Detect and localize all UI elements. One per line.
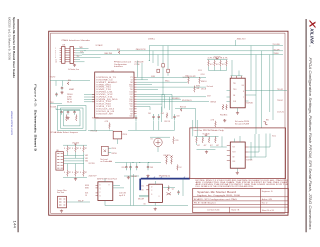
bus SPI horizontal — [141, 178, 190, 180]
svg-text:VCCJ: VCCJ — [272, 136, 276, 138]
wire frame right horiz — [249, 146, 270, 148]
wire y137 center — [150, 136, 170, 138]
svg-text:Rev: D: Rev: D — [262, 203, 268, 205]
bus entry ticks — [146, 177, 185, 179]
svg-text:MOSI: MOSI — [196, 86, 200, 88]
frame resistor R82 — [196, 137, 198, 143]
Xilinx logo X mark — [307, 19, 317, 28]
JP1 internal pins — [59, 199, 65, 205]
svg-text:SPI-MISO: SPI-MISO — [172, 98, 180, 100]
wire y96.8 — [137, 96, 206, 98]
svg-text:R30: R30 — [68, 80, 71, 82]
U5 bottom pin wire — [104, 201, 106, 206]
wire vert x195 to PROM frame — [194, 108, 196, 127]
decoupling cap C52 — [61, 110, 63, 112]
no-load part right pins — [108, 147, 111, 149]
resistor grid row1 R64 — [83, 146, 85, 153]
svg-text:XCF04S: XCF04S — [246, 160, 253, 162]
U7 top pins — [234, 139, 236, 143]
svg-text:XILINX: XILINX — [310, 27, 315, 45]
resistor R60 in loop — [66, 115, 68, 122]
VCC above resistor grid — [74, 144, 77, 145]
jumper loop wires inner — [64, 111, 81, 126]
wire vertical drop x149 to config block — [148, 46, 150, 61]
wire J28 pin 5 net — [75, 56, 100, 58]
svg-text:J30: J30 — [56, 150, 59, 152]
wires in frame left — [210, 146, 227, 148]
svg-text:JTAG-TMS: JTAG-TMS — [104, 52, 113, 55]
svg-text:7: 7 — [243, 97, 244, 99]
svg-text:4K7: 4K7 — [216, 64, 219, 66]
frame title Load for PROM Mode Only — [192, 128, 224, 131]
ground under U7 — [236, 171, 239, 174]
wire bus right of U2 y77.4 — [137, 76, 206, 78]
wire J30 row VS2 — [64, 155, 85, 157]
frame resistor R83 — [202, 137, 204, 143]
svg-text:R35: R35 — [117, 49, 120, 51]
capacitor C62 — [158, 114, 160, 116]
svg-text:R: R — [80, 148, 81, 150]
svg-text:CE: CE — [233, 95, 235, 97]
wire y101.7 — [137, 101, 209, 103]
svg-text:4.7K: 4.7K — [211, 119, 215, 121]
svg-text:13: 13 — [55, 62, 57, 64]
svg-text:FT256: FT256 — [135, 64, 140, 66]
wire vertical drop x153 — [152, 51, 154, 63]
cap drop wires — [125, 163, 127, 165]
wire y94.4 — [137, 93, 172, 95]
svg-text:VCCJ: VCCJ — [198, 70, 202, 72]
svg-text:VCC3V3: VCC3V3 — [89, 163, 95, 165]
pull resistor R50 mid — [180, 108, 182, 111]
svg-text:TDO-USB: TDO-USB — [273, 44, 281, 46]
svg-text:DIN-SPI: DIN-SPI — [131, 176, 138, 178]
svg-text:4K7: 4K7 — [222, 64, 225, 66]
wire vert x95 — [94, 119, 96, 131]
svg-text:R81: R81 — [266, 120, 269, 122]
U7 left pins — [227, 146, 231, 161]
oscillator internal mark — [156, 140, 161, 145]
op-amp U2 FPGA configuration block body — [95, 72, 134, 118]
svg-text:VS1: VS1 — [85, 158, 88, 160]
U5 left pin stubs — [96, 185, 98, 195]
schematic border frame outer — [49, 31, 288, 215]
svg-text:VS2: VS2 — [85, 155, 88, 157]
svg-text:JTAG-TDO: JTAG-TDO — [237, 37, 247, 40]
svg-text:C63: C63 — [177, 115, 180, 117]
junction dots on rail — [132, 162, 133, 163]
capacitor C63 — [174, 114, 176, 116]
svg-text:SPI-BUS[0..3]: SPI-BUS[0..3] — [159, 176, 171, 178]
wire vert x161.5 — [161, 107, 163, 123]
title block row sheet title line — [193, 196, 261, 198]
U2 left pin stubs — [92, 95, 95, 102]
resistor grid row2 R67 — [83, 170, 85, 177]
svg-text:TDI-XC: TDI-XC — [277, 100, 284, 102]
svg-text:TMS-B: TMS-B — [274, 53, 280, 55]
svg-text:4K7: 4K7 — [204, 145, 207, 147]
svg-text:TDI-SPI: TDI-SPI — [274, 49, 280, 51]
capacitor C70 bottom — [178, 190, 180, 192]
resistor grid row2 R65 — [67, 170, 69, 177]
svg-text:144: 144 — [12, 221, 16, 229]
svg-text:V: V — [159, 196, 160, 198]
svg-text:XCF04S: XCF04S — [246, 103, 253, 105]
title block outer — [193, 188, 289, 212]
oscillator X1 body circle — [154, 138, 162, 146]
resistor R70 vertical — [173, 137, 175, 144]
wire mesh verticals — [161, 94, 163, 112]
svg-text:JTAG Interface Header: JTAG Interface Header — [61, 39, 90, 42]
wire vertical drop x261 — [261, 51, 263, 128]
capacitor C67 — [136, 165, 138, 167]
svg-text:TDO-XC: TDO-XC — [277, 89, 284, 91]
svg-text:8: 8 — [243, 91, 244, 93]
wire vertical drop x251 to PROM — [250, 46, 252, 91]
svg-text:Q1: Q1 — [172, 189, 174, 191]
U4 left pins — [227, 89, 231, 91]
svg-text:TCK-FX2: TCK-FX2 — [50, 76, 56, 78]
wire y79.8 — [137, 79, 148, 81]
no-load X marks RN1 — [165, 155, 167, 157]
svg-text:Size: B: Size: B — [231, 210, 240, 212]
frame Load for PROM only — [190, 128, 286, 179]
svg-text:DONE-C: DONE-C — [148, 38, 156, 40]
svg-text:4K7: 4K7 — [197, 145, 200, 147]
svg-text:FPGA Configuration Settings, P: FPGA Configuration Settings, Platform Fl… — [308, 58, 312, 230]
U7 bottom pin — [236, 168, 238, 171]
resistor R46 mid — [194, 86, 196, 93]
wire from JP1 — [67, 201, 91, 203]
svg-text:Spartan-3E Starter Board: Spartan-3E Starter Board — [197, 190, 236, 194]
wires in frame right verticals — [250, 142, 252, 160]
IC U4 XCF04S Platform Flash body — [230, 78, 245, 108]
component R81 topright — [264, 122, 268, 125]
svg-text:R45: R45 — [186, 75, 189, 77]
svg-text:CCLK-SPI: CCLK-SPI — [188, 76, 196, 78]
svg-text:D0: D0 — [242, 85, 244, 87]
wire rail above resistor grid — [63, 144, 87, 146]
svg-text:C65: C65 — [122, 167, 125, 169]
capacitor C61 — [153, 114, 155, 116]
svg-text:MISO-S: MISO-S — [201, 81, 207, 83]
wire right of U4 y90.5 — [251, 90, 287, 92]
decoupling cap C54 — [74, 110, 76, 112]
header rule (right side) — [305, 19, 307, 232]
svg-text:Engineer: JL: Engineer: JL — [262, 191, 273, 193]
vertical resistors R54 R55 right — [222, 104, 224, 110]
transistor Q1 cluster right of U6 — [168, 186, 170, 191]
wire osc down — [157, 147, 159, 153]
svg-text:Figure A-5: Schematic Sheet 5: Figure A-5: Schematic Sheet 5 — [34, 84, 38, 151]
svg-text:CCLK-XC: CCLK-XC — [277, 111, 285, 113]
wire left edge y103 — [50, 103, 62, 105]
capacitor C51 — [56, 92, 58, 94]
svg-text:X1: X1 — [151, 139, 153, 141]
vertical joins resistor grid — [67, 152, 69, 155]
svg-text:4K7: 4K7 — [85, 148, 88, 150]
resistor grid row2 R66 — [75, 170, 77, 177]
svg-text:M1: M1 — [109, 161, 111, 163]
ground below J28 — [73, 64, 76, 67]
U4 right pins — [245, 90, 251, 92]
svg-text:JTAG-FX2-TDI: JTAG-FX2-TDI — [136, 48, 146, 51]
wire from SW0 down — [116, 139, 118, 144]
wire y84.7 — [137, 84, 152, 86]
ground under grid — [63, 177, 87, 179]
wire rail above caps — [56, 109, 80, 111]
svg-text:R: R — [72, 172, 73, 174]
power rail wire y162.5 — [115, 162, 161, 164]
wire vertical drop x168 — [167, 46, 169, 69]
VCC arrow above bank — [216, 58, 219, 59]
pull-up resistor bank R40-R43 above PROM — [207, 59, 228, 61]
wire J30 row VS0 — [64, 160, 85, 162]
wire TDO from J28 — [75, 52, 84, 54]
svg-text:R71 R72: R71 R72 — [164, 155, 171, 157]
capacitor C68 — [147, 165, 149, 167]
wire y89.5 — [137, 89, 158, 91]
frame resistor R85 — [215, 137, 217, 143]
junction dots mid — [162, 94, 163, 95]
svg-text:SPI-ROM-CS: SPI-ROM-CS — [182, 100, 192, 102]
series resistor R left — [67, 82, 69, 85]
wire U6 right — [163, 187, 175, 189]
svg-text:DOUT: DOUT — [207, 95, 211, 97]
wire drops to rail — [135, 121, 137, 130]
bus SPI vertical left — [139, 179, 141, 191]
diode D3 on x163 — [162, 64, 165, 67]
ground under C50 — [60, 91, 63, 94]
svg-text:2x6 3.3V: 2x6 3.3V — [119, 192, 127, 194]
ground under JP1 — [60, 210, 63, 213]
diode D5 on x158 — [157, 69, 160, 72]
U4 top pin stubs red — [232, 76, 242, 78]
Xilinx logo wordmark — [310, 27, 315, 45]
wire vertical JTAG-TDO drop — [234, 40, 236, 46]
svg-text:VCC3V3: VCC3V3 — [214, 57, 221, 59]
svg-text:250K R77: 250K R77 — [89, 176, 97, 178]
svg-text:4K7: 4K7 — [210, 64, 213, 66]
wire verticals to bottom rail — [129, 166, 131, 206]
ground under R54 — [223, 119, 226, 122]
title block row date line — [193, 203, 261, 205]
svg-text:CS: CS — [85, 195, 87, 197]
ground under caps — [66, 116, 69, 119]
U6 top pin — [155, 181, 157, 184]
U2 right pin stubs — [134, 77, 137, 113]
no-load resistor pair RN1 — [166, 158, 168, 164]
resistor R45 mid — [188, 77, 190, 84]
J30 internal pins — [57, 154, 63, 169]
svg-text:S: S — [151, 194, 152, 196]
svg-text:4K7: 4K7 — [77, 148, 80, 150]
vertical resistor R52 — [166, 113, 168, 119]
ground bottom center — [154, 208, 157, 211]
connector J28 pin stubs — [60, 48, 76, 62]
svg-text:Digilent, Inc. Copyright 2005: Digilent, Inc. Copyright 2005, 2006 — [197, 194, 240, 197]
frame resistor R84 — [208, 137, 210, 143]
U4 top pin rail — [231, 75, 243, 77]
svg-text:VS0-JP: VS0-JP — [78, 200, 84, 202]
svg-text:VCC3V3: VCC3V3 — [50, 107, 56, 109]
connector JP1 body — [58, 196, 67, 208]
wire x142 drop — [141, 63, 143, 80]
title block row file line — [193, 200, 261, 202]
wire trunk TDO-USB — [149, 45, 283, 47]
wire y108.3 — [175, 107, 195, 109]
U6 bottom pin — [154, 202, 156, 205]
svg-text:MOSI: MOSI — [85, 185, 90, 187]
svg-text:C62: C62 — [161, 113, 164, 115]
svg-text:C68: C68 — [150, 167, 153, 169]
wire vertical drop x163 — [162, 46, 164, 64]
footer rule (rotated page footer line) — [17, 19, 19, 232]
wire horiz bottom y205.5 — [105, 205, 188, 207]
svg-text:See Text: See Text — [57, 191, 65, 194]
IC U5 SPI flash body — [98, 182, 113, 201]
resistor R47 mid — [199, 77, 201, 84]
svg-text:VCCAUX: VCCAUX — [202, 133, 210, 136]
svg-text:VCCAUX: VCCAUX — [96, 44, 104, 47]
wire vertical drop x158 — [157, 55, 159, 66]
svg-text:11: 11 — [55, 59, 57, 61]
wire trunk TDI row — [84, 50, 283, 52]
svg-text:V: V — [109, 185, 110, 187]
svg-text:N9: N9 — [130, 113, 132, 115]
no-load X mark — [104, 150, 106, 152]
wire J30 row VS1 — [64, 157, 85, 159]
wire J30 row M2 — [64, 163, 85, 165]
svg-text:PROG: PROG — [112, 148, 117, 150]
svg-text:VCC3V3: VCC3V3 — [72, 142, 79, 144]
VCC in frame — [205, 135, 208, 136]
frame resistor bank R82-R85 rail — [195, 135, 219, 137]
wire vert x56 — [55, 81, 57, 86]
wire horiz y80.6 — [50, 80, 90, 82]
svg-text:4K7: 4K7 — [77, 172, 80, 174]
svg-text:4K7: 4K7 — [85, 172, 88, 174]
svg-text:R46: R46 — [197, 88, 200, 90]
svg-text:C60: C60 — [130, 116, 133, 118]
resistor R61 in loop — [76, 115, 78, 122]
wire y99.2 — [137, 98, 181, 100]
svg-text:HSWAP: HSWAP — [69, 88, 75, 91]
wire vert x62.7 — [62, 81, 64, 86]
svg-text:4K7: 4K7 — [69, 148, 72, 150]
svg-text:R: R — [72, 148, 73, 150]
svg-text:VS2-L: VS2-L — [165, 81, 170, 83]
svg-text:R: R — [80, 172, 81, 174]
svg-text:Interface: Interface — [114, 65, 123, 68]
resistor grid row1 R62 — [67, 146, 69, 153]
svg-text:R: R — [64, 172, 65, 174]
svg-text:M0-J30: M0-J30 — [67, 101, 72, 103]
svg-text:D2: D2 — [180, 167, 182, 169]
U7 right pins — [245, 147, 248, 157]
svg-text:No Load on FLASH: No Load on FLASH — [235, 123, 250, 126]
svg-text:R: R — [64, 148, 65, 150]
ground under C65-C68 — [124, 175, 139, 177]
svg-text:CE: CE — [232, 157, 234, 159]
U5 top pin — [104, 179, 106, 182]
svg-text:FPGA Mode Select Jumpers: FPGA Mode Select Jumpers — [50, 131, 78, 134]
wire J28 pin 6 net — [75, 59, 80, 61]
svg-text:R52 1K: R52 1K — [165, 121, 171, 123]
no-load part body — [102, 146, 109, 155]
svg-text:DONE: DONE — [151, 76, 155, 78]
wire y104.1 — [137, 103, 162, 105]
jumper loop wires outer — [58, 106, 87, 131]
component D2 above bus — [177, 165, 179, 171]
wire J28 pin 7 net — [75, 61, 84, 63]
wire vert x183 bottom — [182, 179, 184, 196]
svg-text:UG230 (v1.0) March 9, 2006: UG230 (v1.0) March 9, 2006 — [8, 17, 12, 60]
schematic border frame inner — [51, 33, 285, 213]
U4 top feed wires — [231, 60, 233, 76]
wire vert x273 right edge — [272, 46, 274, 120]
connector J30 mode jumper body — [56, 152, 64, 170]
wires from bank down — [208, 67, 210, 71]
wire teal outside frame left — [192, 120, 194, 136]
connector J28 JTAG header body — [62, 47, 66, 64]
capacitor C66 — [130, 165, 132, 167]
wire y82.2 — [137, 81, 188, 83]
svg-text:2x7 Header, 2mm: 2x7 Header, 2mm — [68, 69, 79, 71]
wire x137 drop — [137, 61, 139, 78]
resistor R68 vertical — [109, 123, 111, 129]
svg-text:CLK: CLK — [232, 161, 235, 163]
decoupling cap C53 — [67, 110, 69, 112]
wire y87.1 — [137, 86, 206, 88]
svg-text:S: S — [100, 196, 101, 198]
wire trunk TMS row — [82, 54, 283, 56]
pushbutton SW0 PROG body — [113, 131, 122, 139]
component R80 above frame — [215, 121, 217, 127]
wire vertical drop x269 — [269, 55, 271, 112]
svg-text:PROG: PROG — [123, 134, 128, 136]
IC U7 XCF04S in frame body — [230, 142, 245, 168]
capacitor C50 — [61, 86, 63, 88]
U5 right wires — [113, 184, 120, 186]
wire TMS from J28 — [75, 47, 88, 49]
title block size cell — [229, 207, 231, 213]
svg-text:SEL-SPI: SEL-SPI — [138, 198, 145, 200]
svg-text:IO/DOUT_N9: IO/DOUT_N9 — [97, 113, 113, 115]
svg-text:No Load: No Load — [207, 86, 213, 88]
diode D4 on x168 — [167, 69, 170, 72]
U6 lower-left wires — [139, 194, 149, 196]
resistor grid row1 R63 — [75, 146, 77, 153]
ground in frame — [197, 149, 216, 151]
svg-text:BOARD: SPI Configuration and J: BOARD: SPI Configuration and JTAG — [194, 198, 238, 201]
ground under U4 — [237, 108, 239, 112]
IC U6 body — [149, 184, 163, 202]
wire y106.5 — [137, 106, 150, 108]
svg-text:R54 R55: R54 R55 — [220, 115, 227, 117]
svg-text:Spartan-3E Starter Kit Board U: Spartan-3E Starter Kit Board User Guide — [12, 17, 16, 78]
svg-text:CK: CK — [141, 189, 143, 191]
wire TCK from J28 — [75, 50, 86, 52]
capacitor C60 — [135, 115, 137, 117]
svg-text:J28: J28 — [62, 45, 65, 47]
svg-text:M25P16 SPI Serial Flash: M25P16 SPI Serial Flash — [97, 178, 117, 181]
wire vert x256 right — [255, 55, 257, 134]
wire rail y130.3 — [128, 129, 175, 131]
svg-text:X: X — [307, 19, 317, 28]
svg-text:R70: R70 — [176, 140, 179, 142]
jumper loop wires middle — [61, 108, 84, 128]
